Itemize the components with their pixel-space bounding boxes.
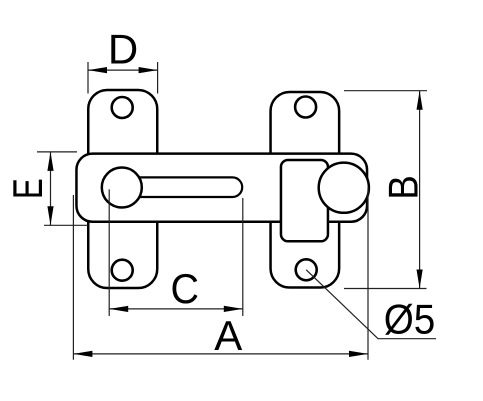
dimension E arrow top [47,152,53,171]
dimension C arrow left [109,306,128,312]
dimension E extension line bottom [44,224,89,226]
svg-text:Ø5: Ø5 [384,295,436,343]
svg-text:D: D [108,26,138,73]
dimension D arrow right [139,67,158,73]
dimension A extension line right [367,188,369,360]
dimension E arrow bottom [47,206,53,225]
dimension A extension line left [72,195,74,360]
left plate top hole [112,97,133,118]
pivot circle [102,168,142,208]
right mounting plate [271,92,340,288]
svg-text:E: E [4,178,51,199]
dimension B line [419,91,421,289]
left plate bottom hole [112,260,133,281]
dimension D extension line left [87,62,89,94]
knob circle [319,163,369,213]
dimension C arrow right [224,306,243,312]
right plate bottom hole [296,259,317,280]
dimension B arrow top [417,91,423,110]
dimension D extension line right [157,62,159,94]
hole diameter leader line [306,270,436,339]
svg-text:C: C [171,265,200,312]
dimension C extension line right [242,198,244,316]
dimension B extension line top [344,90,427,92]
latch bar [76,154,367,222]
right plate top hole [295,97,316,118]
dimension A arrow right [349,351,368,357]
dimension E extension line top [37,151,77,153]
dimension C line [109,308,243,310]
dimension A line [73,353,368,355]
dimension A arrow left [73,351,92,357]
dimension D line [88,69,158,71]
keeper plate [281,160,328,241]
dimension C extension line left [108,189,110,316]
dimension E line [50,152,52,225]
dimension B extension line bottom [344,288,427,290]
svg-text:B: B [380,175,427,199]
svg-text:A: A [214,312,242,359]
slot in latch bar [110,177,242,197]
dimension B arrow bottom [417,270,423,289]
dimension D arrow left [88,67,107,73]
left mounting plate [88,90,157,288]
